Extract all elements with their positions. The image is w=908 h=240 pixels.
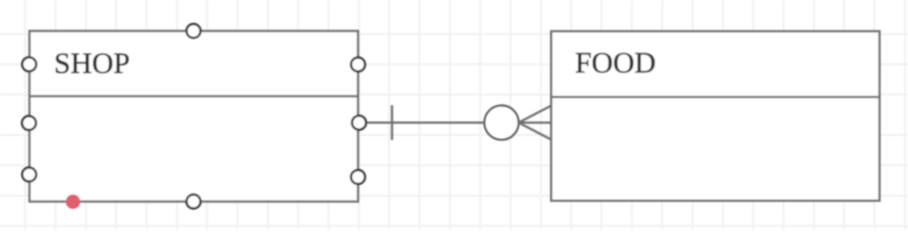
connection point right middle xyxy=(352,116,366,130)
divider FOOD xyxy=(551,96,879,98)
crow's foot prong bottom xyxy=(519,123,552,140)
entity FOOD xyxy=(551,31,879,200)
label FOOD xyxy=(575,48,656,80)
connection point left top xyxy=(22,57,36,71)
one tick marker xyxy=(391,105,393,140)
crow's foot prong middle xyxy=(519,121,552,123)
connection point right top xyxy=(351,58,365,72)
svg-text:FOOD: FOOD xyxy=(575,48,656,80)
label SHOP xyxy=(54,48,130,80)
connection point left bottom xyxy=(22,168,36,182)
connection point left middle xyxy=(22,116,36,130)
connection point top center xyxy=(187,24,201,38)
zero/optional circle marker xyxy=(484,106,518,140)
red connection point xyxy=(66,195,80,209)
wire SHOP to circle marker xyxy=(358,121,484,123)
connection point bottom center xyxy=(187,195,201,209)
svg-text:SHOP: SHOP xyxy=(54,48,130,80)
divider SHOP xyxy=(30,95,359,97)
connection point right bottom xyxy=(351,170,365,184)
crow's foot prong top xyxy=(519,106,552,123)
entity SHOP xyxy=(30,31,359,202)
